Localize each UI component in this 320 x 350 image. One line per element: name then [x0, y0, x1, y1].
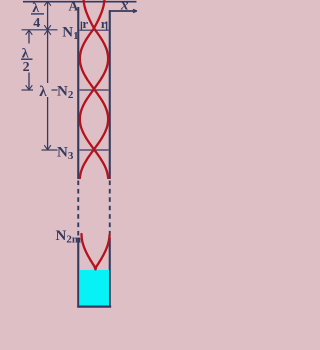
svg-text:r: r: [101, 16, 107, 31]
wave V left at water: [82, 234, 96, 269]
dimension lambda/4 vertical: [47, 1, 49, 30]
svg-text:r: r: [82, 16, 88, 31]
tube bottom: [77, 306, 111, 308]
water: [79, 270, 109, 306]
antinode A level line: [23, 1, 137, 3]
svg-text:x: x: [120, 0, 129, 14]
x-axis arrowhead: [133, 9, 137, 12]
tube left wall solid top: [77, 7, 79, 179]
svg-text:2: 2: [23, 60, 30, 75]
tube right wall solid top: [109, 10, 111, 179]
node N2 tick: [80, 89, 109, 91]
standing wave curve 2: [80, 0, 108, 178]
tube right wall solid bottom: [109, 238, 111, 307]
node N1 tick with r radius arrows: [80, 29, 109, 31]
wave V right at water: [96, 235, 110, 269]
wire x-axis: [109, 10, 137, 12]
tick at N3 level: [42, 149, 58, 151]
svg-text:4: 4: [33, 16, 40, 31]
tube left wall dashed: [77, 181, 79, 237]
dimension lambda/2 vertical: [28, 30, 30, 43]
standing wave curve 1: [80, 0, 108, 178]
svg-text:A: A: [69, 0, 79, 13]
tube left wall solid bottom: [77, 238, 79, 307]
dimension lambda vertical: [47, 30, 49, 83]
tick at N2 level left segment: [22, 89, 34, 91]
node N3 tick: [80, 149, 109, 151]
tick at N1 level: [22, 29, 58, 31]
tube right wall dashed: [109, 181, 111, 237]
tick at N2 level right segment: [52, 89, 58, 91]
svg-text:λ: λ: [39, 84, 47, 100]
